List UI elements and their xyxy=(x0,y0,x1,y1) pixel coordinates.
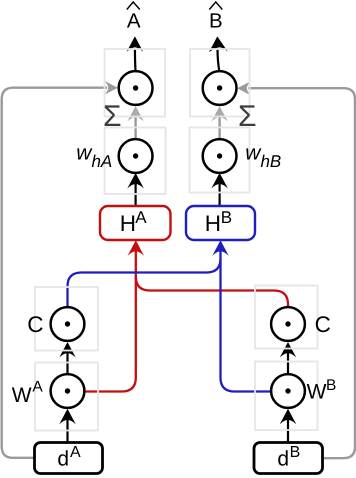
svg-text:Σ: Σ xyxy=(238,100,257,133)
arrowhead gray right-pointing into top-left multiply xyxy=(104,81,118,95)
box d^A xyxy=(35,443,103,474)
svg-text:B: B xyxy=(209,10,223,33)
multiply node w_hA xyxy=(119,139,153,173)
multiply node right W xyxy=(271,374,305,408)
svg-text:A: A xyxy=(127,9,141,32)
wire H^B to w_hB multiply xyxy=(219,184,221,206)
multiply node right C xyxy=(271,307,305,341)
svg-text:C: C xyxy=(315,312,331,337)
arrowhead black into w_hB multiply xyxy=(211,173,228,189)
layer box right C xyxy=(255,286,318,349)
layer box left C xyxy=(35,287,98,351)
wire red branch to right C xyxy=(136,277,288,308)
multiply node top-right xyxy=(203,71,237,105)
svg-text:H: H xyxy=(205,211,221,236)
arrowhead blue into H^B bottom xyxy=(212,240,229,256)
svg-text:H: H xyxy=(120,211,136,236)
wire H^A to w_hA multiply xyxy=(135,184,137,206)
multiply node w_hB xyxy=(203,139,237,173)
arrowhead black into W^A multiply xyxy=(59,409,76,425)
arrowhead black output left xyxy=(127,36,144,52)
svg-text:C: C xyxy=(27,312,43,337)
arrowhead black into right C multiply xyxy=(280,342,297,358)
box H^B xyxy=(186,206,255,240)
arrowhead gray sum left xyxy=(127,106,144,122)
arrowhead gray left-pointing into top-right multiply xyxy=(237,81,251,95)
wire output arrow above top-left multiply xyxy=(134,49,137,72)
multiply node left C xyxy=(51,307,85,341)
svg-text:Σ: Σ xyxy=(103,100,122,133)
arrowhead black into left C multiply xyxy=(59,342,76,358)
wire blue W^B to H^B with branch to left C xyxy=(221,251,271,392)
svg-text:B: B xyxy=(326,377,336,394)
wire gray sum arrow right (w_hB multiply to top-right multiply) xyxy=(218,117,220,140)
multiply node left W xyxy=(51,374,85,408)
multiply node top-left xyxy=(119,71,153,105)
arrowhead black into W^B multiply xyxy=(280,409,297,425)
svg-text:B: B xyxy=(290,444,301,461)
wire gray sum arrow left (w_hA multiply to top-left multiply) xyxy=(134,117,136,140)
box d^B xyxy=(254,443,323,474)
arrowhead black into w_hA multiply xyxy=(127,173,144,189)
svg-text:d: d xyxy=(277,448,289,471)
svg-text:d: d xyxy=(57,448,69,471)
arrowhead red into H^A bottom xyxy=(128,240,145,256)
wire gray skip-connection left (d^A to top-left multiply) xyxy=(2,88,107,458)
layer box right W xyxy=(255,362,318,431)
wire output arrow above top-right multiply xyxy=(218,49,220,72)
layer box top-left upper xyxy=(105,49,166,117)
layer box top-left lower xyxy=(105,128,166,195)
wire d^A to W^A multiply xyxy=(66,419,68,443)
svg-text:W: W xyxy=(307,381,327,404)
arrowhead black output right xyxy=(209,36,228,52)
svg-text:whB: whB xyxy=(245,142,281,172)
layer box top-right lower xyxy=(190,128,250,193)
svg-text:A: A xyxy=(32,379,43,396)
arrowhead gray sum right xyxy=(211,106,228,122)
svg-text:B: B xyxy=(221,208,232,227)
wire d^B to W^B multiply xyxy=(287,419,289,443)
svg-text:whA: whA xyxy=(76,142,112,172)
svg-text:W: W xyxy=(12,384,32,407)
wire W^A to left C multiply xyxy=(66,352,68,374)
wire blue branch to left C xyxy=(68,259,221,308)
box H^A xyxy=(100,206,171,240)
wire gray skip-connection right (d^B to top-right multiply) xyxy=(248,88,355,458)
wire red W^A to H^A with branch to right C xyxy=(85,251,136,392)
svg-text:A: A xyxy=(135,208,147,227)
svg-text:A: A xyxy=(70,444,81,461)
layer box top-right upper xyxy=(190,49,250,117)
wire W^B to right C multiply xyxy=(287,352,289,374)
layer box left W xyxy=(35,363,98,431)
